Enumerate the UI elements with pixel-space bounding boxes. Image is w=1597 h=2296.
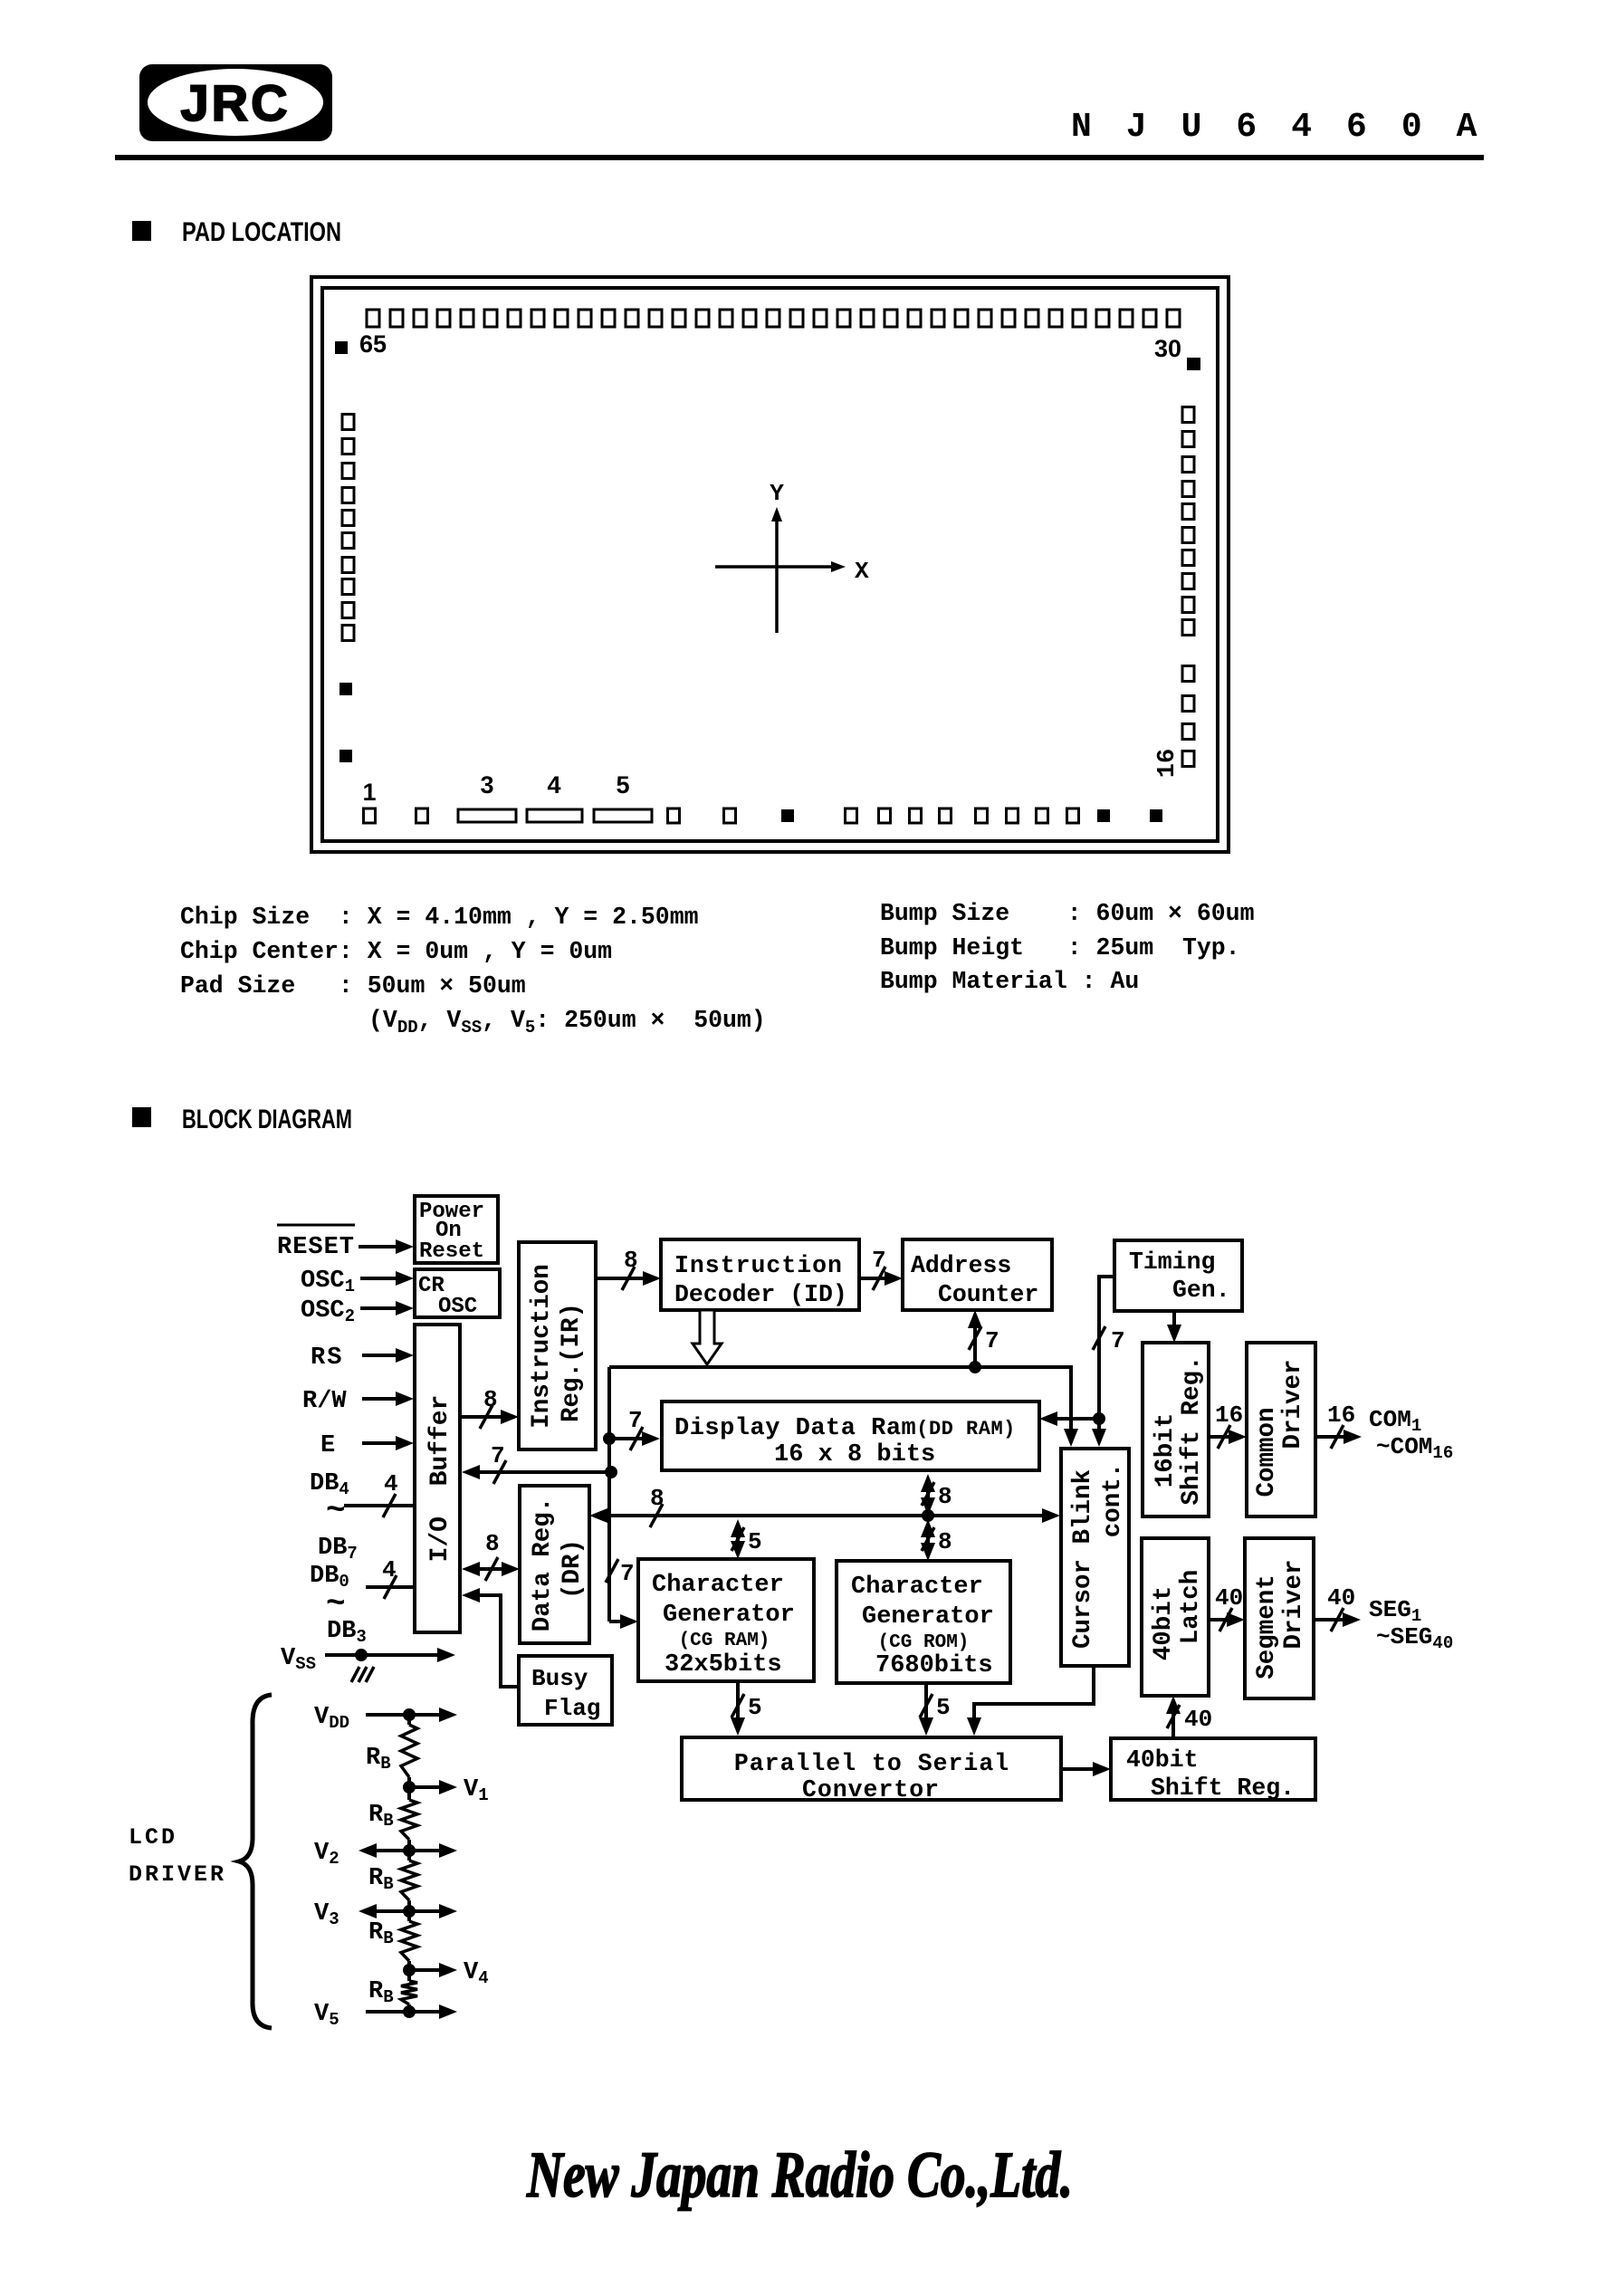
svg-text:(CG RAM): (CG RAM) [679, 1631, 770, 1651]
block Data Reg DR [520, 1486, 589, 1643]
svg-text:16: 16 [1215, 1402, 1243, 1429]
svg-text:40bit: 40bit [1126, 1746, 1199, 1774]
main data bus 8bit [589, 1485, 1060, 1527]
block Display Data Ram DD RAM [662, 1402, 1039, 1470]
block Busy Flag [519, 1656, 612, 1725]
svg-text:~: ~ [326, 1492, 346, 1529]
bottom filled pad A [781, 809, 794, 822]
bottom pad row [364, 808, 1079, 823]
block 16bit Shift Reg [1143, 1343, 1209, 1516]
svg-text:16: 16 [1154, 749, 1181, 778]
svg-text:(VDD, VSS, V5: 250um × 50um): (VDD, VSS, V5: 250um × 50um) [368, 1007, 766, 1038]
svg-text:RS: RS [311, 1344, 343, 1372]
block Cursor Blink cont [1061, 1449, 1129, 1666]
svg-text:40: 40 [1184, 1706, 1212, 1733]
bottom long pad 3 [458, 809, 516, 822]
wire R/W to buffer [362, 1392, 414, 1406]
bus latch to segment driver 40bit [1209, 1584, 1245, 1631]
bus Common Driver COM output [1315, 1402, 1362, 1449]
node V5 [314, 2001, 457, 2030]
hollow arrow ID to bus [693, 1310, 722, 1364]
main address bus [606, 1367, 1078, 1629]
block Parallel to Serial Convertor [682, 1737, 1061, 1803]
right pad column [1182, 407, 1194, 767]
svg-text:Flag: Flag [544, 1695, 600, 1722]
svg-text:40bit: 40bit [1150, 1586, 1178, 1661]
block Power On Reset [415, 1196, 498, 1264]
svg-text:7680bits: 7680bits [875, 1652, 993, 1679]
wire RS to buffer [362, 1348, 414, 1363]
wire Timing Gen to cursor blink 7bit [1092, 1277, 1125, 1447]
svg-text:NJU6460A: NJU6460A [1071, 108, 1511, 147]
svg-text:7: 7 [628, 1407, 643, 1434]
svg-text:(DR): (DR) [559, 1539, 587, 1599]
svg-text:E: E [320, 1432, 335, 1459]
node V2 [314, 1840, 457, 1869]
svg-text:Driver: Driver [1280, 1559, 1308, 1649]
bottom filled pad B [1097, 809, 1110, 822]
block 40bit Latch [1142, 1538, 1209, 1696]
svg-text:3: 3 [480, 771, 493, 799]
svg-text:8: 8 [938, 1528, 952, 1555]
node V1 [403, 1776, 489, 1805]
svg-text:I/O Buffer: I/O Buffer [426, 1395, 454, 1563]
bus to DD RAM right 7bit [1039, 1411, 1099, 1426]
bus DD RAM to data bus 8bit bidirectional [921, 1474, 952, 1516]
svg-text:Parallel to Serial: Parallel to Serial [734, 1750, 1009, 1777]
svg-text:7: 7 [620, 1560, 635, 1587]
svg-text:Instruction: Instruction [674, 1252, 843, 1279]
svg-text:cont.: cont. [1099, 1463, 1127, 1538]
svg-text:Shift Reg.: Shift Reg. [1178, 1355, 1206, 1505]
wire VSS [325, 1648, 455, 1662]
block Character Generator CG ROM [837, 1561, 1010, 1683]
svg-text:(CG ROM): (CG ROM) [878, 1632, 970, 1653]
left pad column [342, 415, 354, 641]
svg-text:Data Reg.: Data Reg. [529, 1497, 557, 1632]
block 40bit Shift Reg [1111, 1738, 1315, 1802]
svg-text:Bump Heigt : 25um Typ.: Bump Heigt : 25um Typ. [880, 934, 1240, 961]
svg-text:Instruction: Instruction [528, 1264, 556, 1429]
resistor RB3 [368, 1851, 417, 1911]
wire VDD [366, 1708, 457, 1722]
svg-text:8: 8 [624, 1247, 638, 1274]
block Common Driver [1247, 1343, 1315, 1516]
axis crosshair [715, 507, 846, 633]
svg-text:40: 40 [1215, 1584, 1243, 1612]
section header BLOCK DIAGRAM [132, 1105, 352, 1134]
svg-text:7: 7 [985, 1327, 999, 1354]
svg-text:Chip Size : X = 4.10mm , Y =: Chip Size : X = 4.10mm , Y = 2.50mm [180, 904, 699, 931]
block I/O Buffer [415, 1325, 460, 1632]
pad 65 marker [335, 341, 348, 354]
svg-text:Counter: Counter [938, 1281, 1038, 1308]
svg-text:DRIVER: DRIVER [129, 1861, 226, 1888]
wire RESET to Power On Reset [359, 1239, 414, 1254]
svg-text:Gen.: Gen. [1172, 1277, 1230, 1304]
JRC logo [139, 64, 332, 141]
bus 16bit Shift Reg to Common Driver [1209, 1402, 1247, 1449]
section header PAD LOCATION [132, 217, 341, 247]
block Instruction Reg IR [519, 1242, 596, 1449]
chip outline outer border [311, 277, 1229, 852]
svg-text:Driver: Driver [1279, 1359, 1307, 1449]
bus CG RAM to parallel serial 5bit [731, 1681, 762, 1736]
junction on 7bit return bus [605, 1466, 617, 1478]
svg-text:Latch: Latch [1177, 1570, 1205, 1645]
svg-text:4: 4 [547, 771, 560, 799]
svg-text:16bit: 16bit [1152, 1413, 1180, 1488]
svg-text:Busy: Busy [531, 1665, 588, 1692]
resistor RB4 [368, 1911, 417, 1970]
bus buffer to IR 8bit [460, 1386, 519, 1429]
svg-text:Generator: Generator [663, 1602, 795, 1629]
block CR OSC [415, 1269, 500, 1319]
bus Address Counter to main bus 7bit [968, 1310, 999, 1373]
resistor RB1 [366, 1715, 417, 1787]
svg-text:8: 8 [938, 1483, 952, 1510]
bus segment driver SEG output [1314, 1584, 1361, 1631]
svg-text:Shift Reg.: Shift Reg. [1151, 1775, 1295, 1802]
svg-text:4: 4 [384, 1470, 398, 1497]
bus IR to ID 8bit [596, 1247, 661, 1290]
resistor RB5 [368, 1970, 417, 2012]
svg-text:5: 5 [616, 771, 629, 799]
wire E to buffer [362, 1436, 414, 1450]
block Character Generator CG RAM [638, 1559, 814, 1681]
wire busy flag to buffer [462, 1588, 519, 1687]
wire DB0-DB3 bus to buffer width 4 [366, 1556, 414, 1599]
svg-text:X: X [855, 558, 869, 585]
bus to buffer 7bit [462, 1442, 611, 1484]
svg-text:5: 5 [748, 1528, 762, 1555]
svg-text:Cursor Blink: Cursor Blink [1069, 1469, 1097, 1649]
svg-text:30: 30 [1154, 335, 1181, 362]
top pad row pads 30-65 [367, 310, 1180, 327]
bus ID to Address Counter 7bit [859, 1247, 903, 1290]
svg-text:40: 40 [1327, 1584, 1355, 1612]
resistor RB2 [368, 1787, 417, 1851]
bus to DD RAM 7bit [603, 1407, 660, 1450]
bus buffer to DR 8bit bidirectional [462, 1530, 520, 1581]
svg-text:Address: Address [911, 1252, 1011, 1279]
svg-text:Chip Center: X = 0um , Y = 0um: Chip Center: X = 0um , Y = 0um [180, 938, 612, 965]
svg-text:Character: Character [652, 1572, 784, 1599]
svg-text:7: 7 [872, 1247, 886, 1274]
svg-text:Bump Material : Au: Bump Material : Au [880, 968, 1139, 995]
svg-text:4: 4 [382, 1556, 397, 1583]
bottom filled pad C [1150, 809, 1162, 822]
wire parallel serial to 40bit shift reg [1061, 1762, 1111, 1776]
wire OSC2 to CR OSC [360, 1301, 414, 1315]
node V3 [314, 1900, 457, 1929]
svg-text:R/W: R/W [302, 1388, 347, 1415]
svg-text:Bump Size : 60um × 60um: Bump Size : 60um × 60um [880, 900, 1254, 927]
svg-text:PAD LOCATION: PAD LOCATION [182, 217, 341, 247]
svg-text:Character: Character [851, 1574, 983, 1601]
bottom long pad 5 [594, 809, 652, 822]
svg-text:Pad Size : 50um × 50um: Pad Size : 50um × 50um [180, 972, 526, 1000]
svg-text:LCD: LCD [129, 1824, 177, 1851]
svg-text:16: 16 [1327, 1402, 1355, 1429]
svg-text:5: 5 [936, 1694, 951, 1721]
svg-text:~: ~ [326, 1585, 346, 1622]
svg-text:8: 8 [485, 1530, 500, 1557]
block Segment Driver [1245, 1538, 1314, 1698]
bottom long pad 4 [527, 809, 582, 822]
wire DB4-DB7 bus to buffer width 4 [344, 1470, 414, 1517]
left filled pad A [339, 683, 352, 695]
svg-text:1: 1 [362, 779, 376, 806]
svg-text:32x5bits: 32x5bits [665, 1651, 782, 1679]
svg-text:7: 7 [491, 1442, 505, 1469]
svg-text:Convertor: Convertor [802, 1776, 940, 1803]
pad 30 marker [1187, 358, 1200, 370]
svg-text:8: 8 [483, 1386, 498, 1413]
svg-text:RESET: RESET [277, 1234, 355, 1261]
svg-text:Display Data Ram(DD RAM): Display Data Ram(DD RAM) [674, 1415, 1016, 1442]
svg-text:7: 7 [1111, 1327, 1125, 1354]
LCD DRIVER label [129, 1824, 226, 1888]
svg-text:65: 65 [359, 330, 387, 358]
LCD DRIVER brace [239, 1695, 272, 2028]
wire Timing Gen to 16bit Shift Reg [1167, 1311, 1181, 1343]
chip outline inner border [322, 288, 1218, 841]
pin RESET with overline [277, 1225, 355, 1261]
svg-text:Segment: Segment [1253, 1574, 1281, 1679]
bus data bus to CG RAM 5bit bidirectional [731, 1519, 762, 1559]
svg-text:Y: Y [770, 480, 784, 507]
svg-text:5: 5 [748, 1694, 762, 1721]
svg-text:Reg.(IR): Reg.(IR) [558, 1303, 586, 1422]
wire Cursor Blink to parallel serial [967, 1666, 1094, 1736]
svg-text:New Japan Radio Co.,Ltd.: New Japan Radio Co.,Ltd. [526, 2138, 1073, 2211]
wire OSC1 to CR OSC [360, 1271, 414, 1286]
bus 40bit shift reg to latch 40bit [1166, 1696, 1212, 1738]
svg-text:16 x 8 bits: 16 x 8 bits [774, 1441, 935, 1468]
ground symbol [351, 1667, 374, 1682]
block Address Counter [903, 1239, 1052, 1310]
bus CG ROM to parallel serial 5bit [919, 1683, 951, 1736]
svg-text:Timing: Timing [1129, 1248, 1215, 1276]
block Timing Gen [1114, 1240, 1242, 1311]
svg-text:Generator: Generator [862, 1603, 994, 1631]
svg-text:8: 8 [650, 1485, 665, 1512]
header rule [115, 155, 1484, 160]
svg-text:Decoder (ID): Decoder (ID) [674, 1281, 847, 1308]
svg-text:JRC: JRC [180, 74, 290, 131]
svg-text:Reset: Reset [419, 1239, 484, 1264]
svg-text:Common: Common [1253, 1407, 1281, 1497]
bus data bus to CG ROM 8bit bidirectional [921, 1519, 952, 1561]
svg-text:BLOCK DIAGRAM: BLOCK DIAGRAM [182, 1105, 352, 1134]
node V4 [403, 1959, 489, 1988]
svg-text:OSC: OSC [438, 1295, 477, 1319]
block Instruction Decoder ID [661, 1239, 859, 1310]
left filled pad B [339, 750, 352, 762]
